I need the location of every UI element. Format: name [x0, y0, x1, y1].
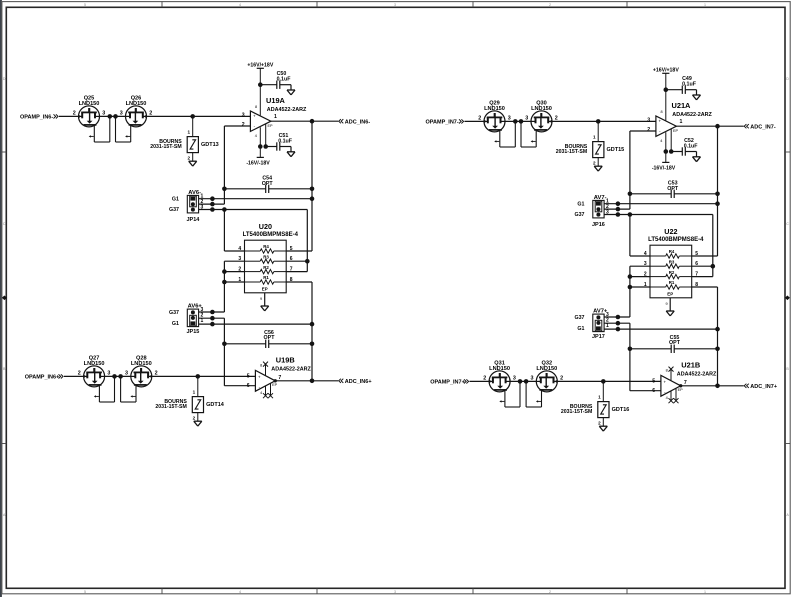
- junction dot output node (bottom): [715, 384, 720, 389]
- svg-text:7: 7: [278, 375, 281, 381]
- ground for top bypass cap: [287, 89, 295, 91]
- jumper JP14: [169, 190, 204, 223]
- svg-text:2031-15T-SM: 2031-15T-SM: [561, 409, 592, 415]
- svg-text:3: 3: [525, 116, 528, 122]
- svg-text:OPAMP_IN7+: OPAMP_IN7+: [430, 380, 465, 386]
- op-amp U21A: [647, 101, 712, 136]
- output wire ADC_IN6-: [271, 120, 338, 122]
- svg-text:1: 1: [704, 590, 706, 594]
- svg-text:2: 2: [560, 376, 563, 382]
- transistor Q32: [526, 360, 563, 407]
- svg-text:1: 1: [193, 390, 196, 395]
- svg-text:1: 1: [606, 323, 609, 329]
- svg-text:2: 2: [593, 160, 596, 165]
- svg-text:3: 3: [606, 209, 609, 215]
- svg-text:LND150: LND150: [489, 366, 510, 372]
- svg-text:0.1uF: 0.1uF: [684, 144, 699, 150]
- svg-text:JP17: JP17: [592, 334, 605, 340]
- svg-text:OPT: OPT: [262, 181, 274, 187]
- wire jumper2 row2 (common): [604, 322, 630, 324]
- op-amp U21B: [652, 360, 717, 403]
- svg-text:R3: R3: [263, 254, 269, 259]
- svg-text:7: 7: [695, 272, 698, 278]
- svg-text:4: 4: [255, 134, 257, 138]
- svg-text:6: 6: [290, 256, 293, 262]
- svg-text:LND150: LND150: [131, 361, 152, 367]
- svg-text:ADC_IN6-: ADC_IN6-: [345, 119, 371, 125]
- junction dot V+ bypass: [258, 82, 263, 87]
- wire between Q31 and Q32: [510, 380, 536, 382]
- junction dot C-fb left: [628, 192, 633, 197]
- wire U20 left common pins 3-2-1: [630, 265, 650, 267]
- svg-text:2: 2: [78, 371, 81, 377]
- svg-text:G37: G37: [574, 315, 584, 321]
- svg-text:+16V/+18V: +16V/+18V: [247, 62, 274, 68]
- wire jumper2 row3 (G37): [604, 316, 630, 318]
- wire G37 to U20 pin4: [629, 215, 631, 257]
- svg-text:OPT: OPT: [669, 340, 681, 346]
- svg-text:OPAMP_IN6-: OPAMP_IN6-: [20, 115, 53, 121]
- output wire ADC_IN6+: [275, 380, 338, 382]
- svg-text:R2: R2: [263, 265, 269, 270]
- svg-text:4: 4: [239, 3, 241, 7]
- capacitor C52: [671, 151, 682, 153]
- svg-text:2: 2: [483, 376, 486, 382]
- wire U20 pin8 to lower output node: [286, 281, 312, 283]
- svg-text:5: 5: [695, 251, 698, 257]
- wire input to Q-pair: [465, 120, 485, 122]
- wire inverting input stub: [630, 130, 656, 132]
- junction dot C-fb2 left: [628, 347, 633, 352]
- wire Q-pair to opamp (bottom): [557, 380, 661, 382]
- junction dot at opamp output: [679, 384, 682, 387]
- svg-text:8: 8: [666, 368, 668, 372]
- junction dots gate returns (bottom): [518, 379, 523, 384]
- U20 EP ground: [264, 293, 266, 306]
- wire output vertical: [717, 126, 719, 256]
- svg-text:EP: EP: [667, 292, 673, 297]
- transistor Q28: [121, 355, 158, 402]
- svg-text:+16V/+18V: +16V/+18V: [653, 67, 680, 73]
- GDT GDT15: [556, 121, 624, 171]
- wire jumper2 row2 (common): [199, 317, 225, 319]
- svg-text:EP: EP: [673, 129, 679, 133]
- svg-text:EP: EP: [678, 388, 684, 392]
- svg-text:AV7-: AV7-: [594, 195, 607, 201]
- wire jumper row3 (G37): [199, 209, 308, 211]
- svg-text:D: D: [3, 77, 6, 81]
- svg-text:4: 4: [660, 139, 662, 143]
- svg-text:U19A: U19A: [266, 96, 286, 105]
- junction dot pin6: [305, 259, 310, 264]
- svg-text:2031-15T-SM: 2031-15T-SM: [150, 144, 181, 150]
- svg-text:2: 2: [188, 155, 191, 160]
- wire output vertical: [311, 121, 313, 251]
- wire jumper2 row3 (G37): [199, 311, 225, 313]
- svg-text:D: D: [786, 77, 789, 81]
- svg-text:1: 1: [598, 395, 601, 400]
- svg-text:5: 5: [84, 3, 86, 7]
- wire Q-pair to opamp: [552, 120, 656, 122]
- svg-text:JP15: JP15: [186, 329, 199, 335]
- svg-text:R1: R1: [669, 280, 675, 285]
- wire G37 to U20 pin4: [223, 210, 225, 252]
- GDT GDT13: [150, 116, 218, 166]
- svg-text:3: 3: [508, 116, 511, 122]
- svg-text:LND150: LND150: [484, 106, 505, 112]
- wire jumper row2 (common): [604, 208, 630, 210]
- svg-text:AV6+: AV6+: [188, 304, 203, 310]
- svg-text:2: 2: [549, 3, 551, 7]
- junction dot C-fb2 right: [310, 342, 315, 347]
- junction dot C-fb left: [222, 187, 227, 192]
- op-amp U19B: [247, 355, 312, 398]
- svg-text:-16V/-18V: -16V/-18V: [652, 166, 676, 172]
- svg-text:2: 2: [73, 111, 76, 117]
- svg-text:R3: R3: [669, 259, 675, 264]
- output net ADC_IN6+: [339, 379, 341, 383]
- svg-text:1: 1: [593, 135, 596, 140]
- svg-text:9: 9: [260, 297, 262, 301]
- svg-text:2: 2: [555, 116, 558, 122]
- output net ADC_IN6-: [339, 119, 341, 123]
- svg-text:7: 7: [684, 380, 687, 386]
- jumper JP16: [574, 195, 609, 228]
- svg-text:8: 8: [660, 110, 662, 114]
- svg-text:1: 1: [679, 119, 682, 125]
- svg-text:R4: R4: [669, 249, 675, 254]
- wire U20 left common pins 3-2-1: [224, 260, 244, 262]
- svg-text:6: 6: [695, 261, 698, 267]
- capacitor C50: [260, 84, 277, 86]
- svg-text:8: 8: [255, 105, 257, 109]
- output net ADC_IN7+: [744, 384, 746, 388]
- svg-text:+: +: [253, 114, 256, 119]
- svg-text:2: 2: [478, 116, 481, 122]
- svg-text:3: 3: [513, 376, 516, 382]
- junction dot GDT tap: [190, 114, 195, 119]
- svg-text:ADA4522-2ARZ: ADA4522-2ARZ: [271, 366, 311, 372]
- wire jumper2 row1 (G1): [199, 323, 312, 325]
- svg-text:4: 4: [238, 246, 241, 252]
- svg-text:3: 3: [242, 112, 245, 118]
- svg-text:2: 2: [242, 122, 245, 128]
- svg-text:3: 3: [201, 204, 204, 210]
- svg-text:2: 2: [155, 371, 158, 377]
- junction dot C-fb right: [310, 187, 315, 192]
- svg-text:G1: G1: [577, 201, 584, 207]
- svg-text:JP14: JP14: [186, 217, 200, 223]
- svg-text:+: +: [664, 380, 667, 385]
- junction dot G1 tap: [310, 196, 315, 201]
- svg-text:U21B: U21B: [681, 360, 700, 369]
- wire jumper row1 (G1): [604, 203, 717, 205]
- junction dot at opamp output: [274, 379, 277, 382]
- transistor Q29: [478, 100, 515, 147]
- svg-text:GDT16: GDT16: [612, 407, 630, 413]
- U20 EP ground: [669, 298, 671, 311]
- ground for bottom bypass cap: [287, 151, 295, 153]
- svg-text:AV6-: AV6-: [188, 190, 201, 196]
- svg-text:ADC_IN7+: ADC_IN7+: [750, 384, 777, 390]
- wire inverting vertical: [629, 131, 631, 209]
- junction dot pin6: [711, 264, 716, 269]
- svg-text:ADA4522-2ARZ: ADA4522-2ARZ: [267, 107, 307, 113]
- transistor Q30: [521, 100, 558, 147]
- junction dots V- bypass: [664, 149, 669, 154]
- svg-text:2: 2: [598, 420, 601, 425]
- capacitor C54: [224, 188, 265, 190]
- resistor network U20: [238, 222, 298, 293]
- svg-text:2031-15T-SM: 2031-15T-SM: [155, 404, 186, 410]
- svg-text:LND150: LND150: [536, 366, 557, 372]
- wire jumper row3 (G37): [604, 214, 713, 216]
- ground for top bypass cap: [693, 94, 701, 96]
- wire input to Q-pair (bottom): [64, 375, 84, 377]
- wire jumper row2 (common): [199, 203, 225, 205]
- svg-text:2: 2: [647, 127, 650, 133]
- power +16V rail: [257, 67, 264, 69]
- wire input to Q-pair (bottom): [470, 380, 490, 382]
- svg-text:ADC_IN7-: ADC_IN7-: [750, 124, 776, 130]
- svg-text:1: 1: [704, 3, 706, 7]
- transistor Q26: [116, 95, 153, 142]
- capacitor C53: [630, 193, 671, 195]
- junction dot output: [310, 119, 315, 124]
- svg-text:OPT: OPT: [667, 186, 679, 192]
- svg-text:5: 5: [652, 378, 655, 384]
- svg-text:3: 3: [107, 371, 110, 377]
- svg-text:LND150: LND150: [126, 101, 147, 107]
- junction dot C-fb2 right: [715, 347, 720, 352]
- junction dots V- bypass: [258, 144, 263, 149]
- GDT GDT14: [155, 376, 224, 426]
- svg-text:ADA4522-2ARZ: ADA4522-2ARZ: [677, 371, 717, 377]
- svg-text:GDT13: GDT13: [201, 142, 219, 148]
- svg-text:4: 4: [260, 391, 262, 395]
- transistor Q27: [78, 355, 115, 402]
- svg-text:ADC_IN6+: ADC_IN6+: [345, 379, 372, 385]
- wire jumper2 row1 (G1): [604, 328, 717, 330]
- svg-text:9: 9: [665, 302, 667, 306]
- wire U20 pin8 to lower output node: [692, 286, 718, 288]
- svg-text:5: 5: [290, 246, 293, 252]
- svg-text:EP: EP: [268, 124, 274, 128]
- svg-text:1: 1: [274, 114, 277, 120]
- svg-text:GDT14: GDT14: [206, 402, 225, 408]
- svg-text:4: 4: [666, 396, 668, 400]
- svg-text:3: 3: [531, 376, 534, 382]
- svg-text:AV7+: AV7+: [593, 309, 608, 315]
- svg-text:1: 1: [201, 318, 204, 324]
- wire jumper row1 (G1): [199, 198, 312, 200]
- svg-text:G1: G1: [172, 196, 179, 202]
- wire output to U20 pin5: [286, 250, 312, 252]
- svg-text:5: 5: [247, 373, 250, 379]
- ground for bottom bypass cap: [693, 156, 701, 158]
- capacitor C55: [630, 348, 671, 350]
- junction dots gate returns: [108, 114, 113, 119]
- svg-text:3: 3: [125, 371, 128, 377]
- svg-text:G37: G37: [574, 212, 584, 218]
- wire inverting vertical: [223, 126, 225, 204]
- svg-text:R2: R2: [669, 270, 675, 275]
- wire Q-pair to opamp (bottom): [152, 375, 256, 377]
- svg-text:3: 3: [394, 3, 396, 7]
- svg-text:8: 8: [260, 363, 262, 367]
- svg-text:EP: EP: [272, 383, 278, 387]
- capacitor C49: [666, 89, 683, 91]
- resistor network U22: [644, 227, 704, 298]
- svg-text:U19B: U19B: [276, 355, 295, 364]
- capacitor C51: [266, 146, 277, 148]
- svg-text:ADA4522-2ARZ: ADA4522-2ARZ: [672, 112, 712, 118]
- wire between Q29 and Q30: [505, 120, 531, 122]
- junction dot C-fb right: [715, 192, 720, 197]
- svg-text:JP16: JP16: [592, 222, 605, 228]
- junction dot output: [715, 124, 720, 129]
- output wire ADC_IN7+: [681, 385, 744, 387]
- svg-text:EP: EP: [262, 287, 268, 292]
- svg-text:U22: U22: [664, 227, 677, 236]
- svg-text:LND150: LND150: [79, 101, 100, 107]
- svg-text:LT5400BMPMS8E-4: LT5400BMPMS8E-4: [243, 232, 299, 238]
- svg-text:U21A: U21A: [672, 101, 692, 110]
- svg-text:OPAMP_IN7-: OPAMP_IN7-: [425, 120, 458, 126]
- svg-text:0.1uF: 0.1uF: [278, 139, 293, 145]
- transistor Q31: [483, 360, 520, 407]
- wire between Q25 and Q26: [100, 115, 126, 117]
- svg-text:0.1uF: 0.1uF: [682, 81, 697, 87]
- GDT GDT16: [561, 381, 629, 431]
- svg-text:2031-15T-SM: 2031-15T-SM: [556, 149, 587, 155]
- svg-text:G1: G1: [577, 326, 584, 332]
- transistor Q25: [73, 95, 110, 142]
- svg-text:LT5400BMPMS8E-4: LT5400BMPMS8E-4: [648, 237, 704, 243]
- svg-text:2: 2: [549, 590, 551, 594]
- wire inverting input stub: [224, 125, 250, 127]
- svg-text:7: 7: [290, 267, 293, 273]
- svg-text:2: 2: [149, 111, 152, 117]
- wire Q-pair to opamp: [147, 115, 251, 117]
- V- rail wires: [665, 132, 667, 162]
- svg-text:4: 4: [644, 251, 647, 257]
- svg-text:+: +: [659, 119, 662, 124]
- junction dot output node (bottom): [310, 379, 315, 384]
- wire inverting stub (bottom): [224, 385, 255, 387]
- junction dot GDT tap (bottom): [196, 374, 201, 379]
- wire input to Q-pair: [59, 115, 79, 117]
- jumper JP15: [169, 304, 204, 336]
- svg-text:4: 4: [239, 590, 241, 594]
- svg-text:G1: G1: [172, 321, 179, 327]
- output wire ADC_IN7-: [676, 125, 743, 127]
- junction dots gate returns (bottom): [112, 374, 117, 379]
- wire between Q27 and Q28: [105, 375, 131, 377]
- svg-text:1: 1: [188, 130, 191, 135]
- wire output to U20 pin5: [692, 255, 718, 257]
- junction dots gate returns: [513, 119, 518, 124]
- sheet border frame: [0, 0, 2, 597]
- capacitor C56: [224, 343, 265, 345]
- power +16V rail: [662, 72, 669, 74]
- junction dot G1 tap: [715, 201, 720, 206]
- svg-text:3: 3: [647, 117, 650, 123]
- svg-text:5: 5: [84, 590, 86, 594]
- svg-text:OPAMP_IN6+: OPAMP_IN6+: [25, 375, 60, 381]
- svg-text:-16V/-18V: -16V/-18V: [246, 161, 270, 167]
- junction dot GDT tap (bottom): [601, 379, 606, 384]
- junction dot GDT tap: [596, 119, 601, 124]
- svg-text:3: 3: [102, 111, 105, 117]
- svg-text:R4: R4: [263, 244, 269, 249]
- svg-text:3: 3: [394, 590, 396, 594]
- svg-text:OPT: OPT: [264, 335, 276, 341]
- svg-text:LND150: LND150: [84, 361, 105, 367]
- svg-text:C: C: [786, 222, 789, 226]
- wire inverting stub (bottom): [630, 390, 661, 392]
- junction dot C-fb2 left: [222, 342, 227, 347]
- output net ADC_IN7-: [744, 124, 746, 128]
- svg-text:GDT15: GDT15: [607, 147, 625, 153]
- op-amp U19A: [242, 96, 307, 131]
- svg-text:+: +: [258, 375, 261, 380]
- V- rail wires: [259, 127, 261, 157]
- wire G37 to U20 pins6-7: [712, 215, 714, 277]
- wire G37 to U20 pins6-7: [306, 210, 308, 272]
- svg-text:R1: R1: [263, 275, 269, 280]
- jumper JP17: [574, 309, 609, 341]
- svg-text:3: 3: [120, 111, 123, 117]
- junction dot V+ bypass: [664, 87, 669, 92]
- svg-text:C: C: [3, 222, 6, 226]
- svg-text:G37: G37: [169, 310, 179, 316]
- svg-text:G37: G37: [169, 207, 179, 213]
- svg-text:0.1uF: 0.1uF: [277, 76, 292, 82]
- svg-text:LND150: LND150: [531, 106, 552, 112]
- svg-text:2: 2: [193, 415, 196, 420]
- svg-text:U20: U20: [259, 222, 272, 231]
